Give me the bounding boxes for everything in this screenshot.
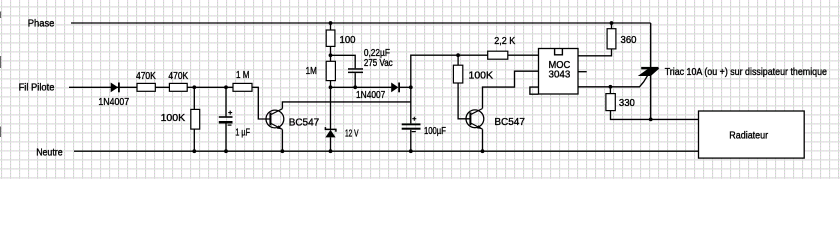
node junction dot Phase x611 [610,21,614,25]
wire Q1 emitter to Neutre [281,130,283,152]
node junction dot rail x330 [329,85,333,89]
svg-text:100µF: 100µF [424,125,446,137]
node junction dot bottom row x650 [649,118,653,122]
node junction dot Neutre x226 [224,149,228,153]
capacitor C3 100uF polarized [402,117,446,138]
svg-text:3043: 3043 [549,69,571,81]
node junction dot Neutre x410 [409,149,413,153]
svg-text:1 M: 1 M [236,69,250,81]
edge artifact mark lower-middle [0,127,1,138]
svg-text:2,2 K: 2,2 K [494,35,515,47]
svg-text:BC547: BC547 [494,116,525,128]
wire Phase dropper through R100 and R1M [330,23,332,30]
svg-text:Radiateur: Radiateur [729,129,768,141]
wire C2 bottom to rail [354,73,356,87]
svg-text:BC547: BC547 [289,116,320,128]
wire Q1 collector row [282,102,410,109]
wire triac vertical from Phase to bottom rail [650,23,652,119]
wire 100uF C3 branch bottom [410,130,412,151]
transistor Q2 BC547 [466,109,525,130]
resistor R2 470K [168,70,188,91]
wire MOC pin top-right to R8 360 [578,49,612,56]
wire MOC pin mid-right stub [578,71,587,73]
node junction dot Neutre x330 [329,149,333,153]
resistor R6 2.2K [488,35,516,59]
svg-text:1 µF: 1 µF [235,127,250,139]
resistor R4 1M horizontal [233,69,252,91]
svg-text:Fil Pilote: Fil Pilote [19,82,55,94]
wire R8 360 top to Phase [611,23,613,29]
wire R7 100K bottom to Q2 base [458,83,470,119]
wire Fil Pilote rail to base of Q1 [69,87,270,119]
transistor Q1 BC547 [266,109,319,130]
wire Q2 collector to MOC pin mid-left [483,71,539,108]
wire Q2 emitter to Neutre [482,129,484,151]
node junction dot rail x410 [409,85,413,89]
wire node to R9 330 top [609,87,611,94]
wire MOC pin bottom-right to triac gate [578,75,648,86]
svg-text:12 V: 12 V [345,128,359,140]
node junction dot Phase x330 [329,21,333,25]
wire 100K R3 branch [193,87,195,151]
svg-text:1N4007: 1N4007 [98,96,129,108]
Radiateur heatsink box [699,111,805,158]
wire Phase rail [71,22,651,24]
wire MOC pin bottom-left hook [530,87,539,94]
wire 1uF C1 branch bottom [225,123,227,151]
svg-text:470K: 470K [136,70,156,82]
edge artifact mark upper-middle [0,56,1,68]
diode D2 1N4007 [356,83,399,102]
node junction dot Neutre x282 [281,149,285,153]
resistor R1 470K [136,70,156,91]
svg-text:1N4007: 1N4007 [356,89,385,101]
svg-text:100: 100 [340,34,356,46]
wire R9 330 bottom to Radiateur [611,111,699,120]
wire between R100 and R1M [330,46,332,61]
wire R1M bottom through node to zener [330,81,332,129]
node junction dot rail x194 [192,85,196,89]
svg-text:100K: 100K [469,69,494,81]
svg-text:275 Vac: 275 Vac [364,57,393,69]
edge artifact mark top [0,12,1,19]
node junction dot 55-row x330 [329,53,333,57]
resistor R9 330 vertical [606,94,635,111]
resistor R7 100K vertical [453,65,493,83]
zener diode DZ 12V [325,127,358,140]
diode D1 1N4007 [98,83,129,109]
wire Neutre rail [74,150,699,152]
svg-text:470K: 470K [168,70,188,82]
node junction dot rail x226 [224,85,228,89]
svg-text:330: 330 [619,97,635,109]
wire riser to 55 row feeding R6 2.2K [411,55,488,87]
wire 100uF C3 branch top [410,87,412,123]
svg-text:Neutre: Neutre [36,147,63,159]
resistor R5 1M vertical [306,61,336,80]
svg-text:360: 360 [621,34,637,46]
svg-text:1M: 1M [306,65,317,77]
wire mid 87 rail left of D2 [331,86,392,88]
triac TR1 [639,66,827,78]
wire zener to Neutre [330,137,332,151]
wire R7 100K top [457,55,459,65]
resistor R8 360 vertical [607,29,637,49]
svg-text:Triac 10A (ou +) sur dissipate: Triac 10A (ou +) sur dissipateur themiqu… [665,66,827,78]
node junction dot Neutre x194 [192,149,196,153]
svg-text:Phase: Phase [28,17,55,29]
capacitor C2 0.22uF 275Vac [348,47,393,73]
node junction dot gate row x610 [609,85,613,89]
svg-text:100K: 100K [161,112,186,124]
wire D2 to node [399,86,410,88]
node junction dot Neutre x482 [481,149,485,153]
node junction dot rail x355 [353,85,357,89]
resistor R3 100K vertical [161,109,200,129]
wire 2.2K to MOC pin top-left [508,54,539,56]
wire 1uF C1 branch top [225,87,227,116]
wire node to C2 0.22uF [331,55,356,68]
node junction dot 55-row x458 [456,53,460,57]
resistor R5a 100 vertical [326,30,355,46]
op-amp U1 MOC3043 optocoupler box [539,49,579,95]
capacitor C1 1uF polarized [219,111,250,139]
